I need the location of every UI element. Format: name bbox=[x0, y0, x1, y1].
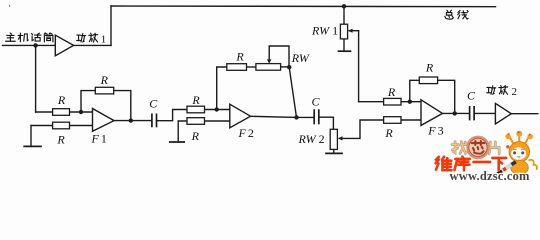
svg-text:R: R bbox=[191, 93, 200, 107]
op-amp 功放2 triangle bbox=[495, 103, 511, 124]
wire RW right to junction bbox=[281, 66, 290, 68]
potentiometer RW2 bbox=[330, 129, 337, 149]
label 功放 1 bbox=[77, 33, 98, 42]
wire C2 to RW2 bbox=[319, 117, 333, 129]
wire riser to bus bbox=[110, 6, 112, 45]
wire F1 feedback right drop bbox=[114, 91, 131, 121]
wire between R and RW F2 feedback bbox=[247, 66, 256, 68]
wire F3 feedback right drop bbox=[438, 80, 455, 113]
resistor R (F3 lower input) bbox=[384, 117, 401, 124]
svg-text:RW2: RW2 bbox=[298, 132, 325, 146]
wire F1 output to C bbox=[114, 120, 152, 122]
svg-text:R: R bbox=[387, 85, 396, 99]
wire F1 lower input bbox=[31, 125, 93, 127]
op-amp F3 triangle bbox=[421, 100, 443, 126]
node F1 output bbox=[129, 118, 133, 122]
ground bar F1 bbox=[24, 145, 41, 147]
svg-text:F2: F2 bbox=[238, 126, 254, 140]
resistor R (F3 upper input) bbox=[384, 98, 401, 105]
node mic junction bbox=[33, 43, 37, 47]
resistor R (F2 lower input) bbox=[187, 118, 205, 125]
svg-text:RW: RW bbox=[291, 51, 310, 65]
ground bar F2 bbox=[170, 141, 184, 143]
label 功放 2 bbox=[487, 86, 508, 95]
watermark 维库一下 red text bbox=[436, 157, 507, 171]
crown stalks bbox=[510, 135, 529, 144]
svg-text:F3: F3 bbox=[427, 124, 443, 138]
wire RW2 wiper right riser to F3 lower input bbox=[341, 120, 384, 138]
capacitor C2 bbox=[314, 109, 319, 124]
wire mic node down left column bbox=[35, 45, 37, 112]
label 总线 bbox=[445, 10, 468, 19]
node F2 output bbox=[294, 115, 298, 119]
svg-text:R: R bbox=[56, 133, 65, 147]
wire F2 feedback drop (slight skew) bbox=[289, 67, 296, 117]
wire RW1 stub from bus bbox=[343, 6, 345, 24]
wire RW2 to ground bbox=[333, 149, 335, 153]
wire F2 lower to ground bbox=[177, 121, 179, 142]
resistor R (F1 upper input) bbox=[53, 109, 70, 116]
wire amp1 output bbox=[74, 44, 111, 46]
potentiometer RW1 (bus) bbox=[340, 24, 347, 39]
resistor R (F3 feedback) bbox=[419, 77, 437, 84]
resistor R (F2 upper input) bbox=[187, 106, 205, 113]
svg-text:R: R bbox=[57, 93, 66, 107]
watermark circle badge bbox=[467, 137, 489, 159]
svg-text:C: C bbox=[311, 95, 320, 109]
svg-text:R: R bbox=[425, 60, 434, 74]
svg-text:R: R bbox=[191, 129, 200, 143]
wire amp2 output bbox=[511, 113, 538, 115]
wire C1 to F2 upper resistor bbox=[157, 110, 188, 121]
wire R upper F1 to op-amp bbox=[70, 111, 93, 113]
resistor R (F1 feedback) bbox=[95, 87, 113, 94]
wire F2 output to C2 bbox=[251, 116, 315, 117]
resistor R (F1 lower input) bbox=[53, 122, 70, 129]
wire F3 feedback left riser bbox=[410, 80, 420, 101]
wire C3 to amp2 bbox=[474, 112, 495, 114]
svg-text:2: 2 bbox=[512, 86, 518, 98]
wire RW1 to ground bbox=[343, 39, 345, 51]
wire RW1 wiper to riser bbox=[349, 30, 358, 32]
RW2 wiper arrow head bbox=[338, 136, 343, 140]
svg-text:www.dzsc.com: www.dzsc.com bbox=[450, 169, 531, 183]
label 主机话筒 bbox=[6, 33, 53, 42]
op-amp F2 triangle bbox=[230, 104, 251, 128]
svg-text:C: C bbox=[467, 89, 476, 103]
svg-text:RW1: RW1 bbox=[311, 24, 338, 38]
svg-text:1: 1 bbox=[101, 34, 107, 46]
ground bar under RW1 bbox=[339, 50, 351, 52]
RW1 wiper arrow head bbox=[348, 29, 353, 33]
resistor R (F2 feedback) bbox=[227, 64, 247, 71]
svg-text:C: C bbox=[149, 97, 158, 111]
wire R upper F2 to op-amp bbox=[205, 109, 230, 111]
wire R lower F3 to op-amp bbox=[401, 119, 421, 121]
watermark 找芯片 logo bbox=[452, 142, 499, 154]
body bbox=[511, 161, 529, 175]
right wing curl bbox=[529, 160, 537, 170]
op-amp F1 triangle bbox=[93, 109, 115, 132]
capacitor C1 bbox=[152, 114, 157, 128]
svg-text:R: R bbox=[100, 73, 109, 87]
node F3 inverting input bbox=[408, 100, 412, 104]
node F2 inverting input bbox=[215, 107, 219, 111]
wire F2 lower input bbox=[178, 120, 230, 122]
wire mic input bbox=[3, 44, 56, 46]
op-amp 功放1 buffer triangle bbox=[55, 35, 73, 56]
wire into F3 upper resistor bbox=[359, 101, 384, 103]
wire F2 feedback left riser bbox=[217, 67, 227, 110]
mascot bbox=[505, 131, 537, 175]
wire R upper F3 to op-amp bbox=[401, 101, 421, 103]
speck top-left bbox=[8, 5, 11, 7]
ground bar RW2 bbox=[326, 152, 342, 154]
wire F1 feedback left riser bbox=[81, 91, 95, 112]
potentiometer RW (F2 feedback) bbox=[256, 64, 281, 71]
wire left column to R upper F1 bbox=[36, 111, 53, 113]
wire F3 output to C3 bbox=[443, 112, 470, 114]
mascot pen bbox=[497, 162, 516, 174]
node F1 inverting input bbox=[79, 110, 83, 114]
wire riser RW1-wiper down to F3 upper input bbox=[358, 31, 360, 102]
node bus junction bbox=[342, 4, 346, 8]
wire bus 总线 bbox=[111, 5, 496, 8]
node F2 feedback RW join bbox=[287, 65, 291, 69]
head bbox=[509, 142, 529, 162]
svg-text:F1: F1 bbox=[91, 132, 107, 146]
potentiometer RW wiper arrow bbox=[267, 59, 272, 63]
wire F1 lower to ground bbox=[30, 126, 32, 147]
node F3 output bbox=[453, 111, 457, 115]
svg-text:R: R bbox=[384, 126, 393, 140]
wire RW wiper loop F2 bbox=[269, 46, 289, 67]
capacitor C3 bbox=[470, 106, 475, 120]
svg-text:R: R bbox=[235, 49, 244, 63]
